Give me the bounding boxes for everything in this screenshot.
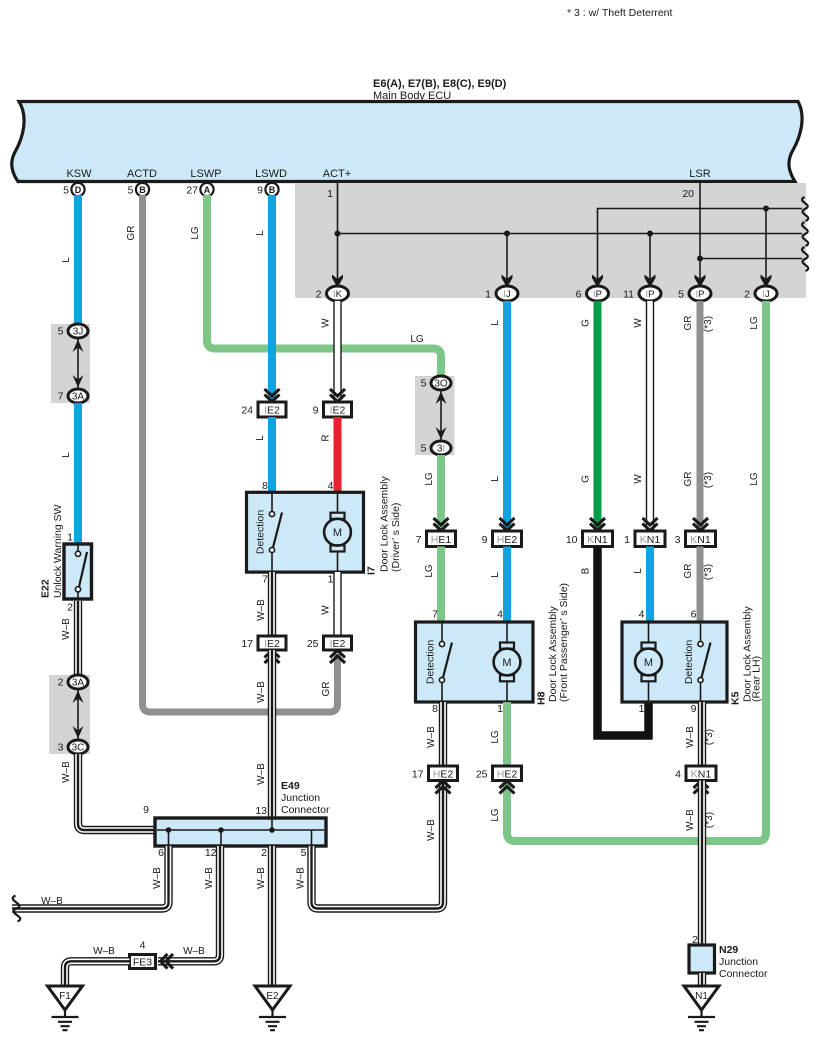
ground N1 [684,986,719,1010]
svg-text:E6(A), E7(B), E8(C), E9(D): E6(A), E7(B), E8(C), E9(D) [373,78,507,90]
wire W from IP11 [646,301,654,531]
connector 17 HE2 [429,766,458,781]
connector oval 11 IP [639,286,661,301]
svg-text:25: 25 [476,769,488,781]
svg-text:D: D [75,185,82,195]
svg-text:6: 6 [158,847,164,859]
arrow into IP11 [645,275,656,288]
chevron below 4 KN1 [694,781,709,794]
svg-text:(Rear LH): (Rear LH) [751,656,763,702]
svg-text:LG: LG [424,564,435,578]
wire W-B 17 IE2 to E49 pin13 [268,650,276,818]
junction connector E49 box [155,818,326,846]
svg-text:27: 27 [186,185,198,197]
svg-text:5: 5 [421,378,427,390]
svg-text:G: G [581,319,592,327]
svg-text:5: 5 [678,289,684,301]
svg-text:IE2: IE2 [330,405,346,417]
connector pair 3J/3A shade [51,324,90,403]
svg-text:9: 9 [691,703,697,715]
wire GR KN1 to K5 pin6 [697,547,704,623]
connector oval 1 IJ [496,286,518,301]
door lock assembly K5 box [622,622,727,702]
wire B from KN1 to K5 pin1 [598,547,649,736]
K5 switch [700,622,702,702]
wire L LSWD [268,195,276,400]
wire L KN1 to K5 pin4 [646,547,654,623]
connector oval 5 3J [68,324,88,338]
chevron into 1 KN1 [643,518,658,531]
wire W-B I7 pin7 to 17 IE2 [268,572,276,636]
svg-text:W–B: W–B [256,867,267,889]
bus wire y=258.5 [700,258,802,260]
double arrow between 3A and 3C [77,689,79,740]
wire L into I7 pin 8 [268,417,276,492]
svg-text:IE2: IE2 [330,638,346,650]
svg-text:6: 6 [691,609,697,621]
svg-text:(*3): (*3) [703,564,714,580]
svg-text:W–B: W–B [256,763,267,785]
svg-text:ACT+: ACT+ [323,168,351,180]
svg-text:W–B: W–B [256,681,267,703]
svg-text:B: B [581,567,592,574]
junction area shade [295,183,806,298]
svg-text:7: 7 [58,391,64,403]
svg-text:LG: LG [410,334,424,345]
unlock warning switch E22 box [64,544,92,599]
svg-text:12: 12 [205,847,217,859]
pin 27 circle A [200,183,213,196]
junction dot [504,231,510,237]
svg-text:R: R [321,434,332,441]
wire G from IP6 [594,301,602,531]
svg-text:W–B: W–B [93,946,115,957]
svg-text:KN1: KN1 [691,769,712,781]
svg-text:LG: LG [749,316,760,330]
svg-text:1: 1 [327,188,333,200]
svg-text:(Driver’ s Side): (Driver’ s Side) [390,503,402,572]
wire LSR vertical [699,183,701,279]
connector 24 IE2 [258,402,286,417]
H8 switch [441,622,443,702]
svg-text:M: M [644,657,653,669]
svg-text:H8: H8 [536,691,548,705]
svg-text:(*3): (*3) [704,729,715,745]
svg-text:W: W [633,318,644,328]
svg-text:9: 9 [257,185,263,197]
connector 9 IE2 [324,402,352,417]
wire GR from IP5 [697,301,704,531]
Main Body ECU box U1 [12,102,802,182]
svg-text:9: 9 [143,804,149,816]
svg-text:M: M [502,657,511,669]
junction dot [335,231,341,237]
svg-text:1: 1 [497,703,503,715]
svg-text:IE2: IE2 [264,638,280,650]
svg-text:W–B: W–B [183,946,205,957]
svg-text:2: 2 [67,602,73,614]
svg-text:7: 7 [432,609,438,621]
chevron into 9 IE2 [330,389,345,402]
svg-text:GR: GR [683,316,694,331]
svg-text:W–B: W–B [296,867,307,889]
wire LG H8 pin1 to 25 HE2 [503,702,511,766]
wire W-B E49 pin5 to 17 HE2 [312,781,444,909]
connector 7 HE1 [427,531,456,547]
svg-text:IE2: IE2 [264,405,280,417]
wire W-B E22 to 3A [74,601,82,676]
svg-text:W–B: W–B [685,809,696,831]
svg-text:K5: K5 [730,691,742,705]
junction dot [647,231,653,237]
wire W-B H8 pin8 to 17 HE2 [439,702,447,766]
wire W I7 pin1 to 25 IE2 [333,572,341,636]
svg-text:W–B: W–B [204,867,215,889]
svg-text:Detection: Detection [683,640,695,685]
svg-text:W: W [321,605,332,615]
pin 5 circle D [71,183,84,196]
svg-text:3J: 3J [73,327,84,338]
svg-text:2: 2 [744,289,750,301]
arrow into IP6 [592,275,603,288]
chevron below 17 IE2 [265,651,280,664]
connector oval 2 3A [68,675,88,689]
junction dot [763,206,769,212]
svg-text:M: M [333,527,342,539]
K5 motor M [648,622,650,702]
svg-text:KN1: KN1 [640,534,661,546]
svg-text:W–B: W–B [41,896,63,907]
wire W-B FE3 to F1 [65,961,130,986]
svg-text:GR: GR [321,682,332,697]
chevron below 17 HE2 [436,781,451,794]
svg-text:IP: IP [593,289,602,300]
svg-text:L: L [490,572,501,578]
svg-text:E49: E49 [281,780,300,792]
svg-text:I7: I7 [366,566,378,575]
chevron into 7 HE1 [434,518,449,531]
svg-text:2: 2 [261,847,267,859]
E22 switch [77,544,79,599]
svg-text:Unlock Warning SW: Unlock Warning SW [52,504,64,598]
svg-text:8: 8 [262,480,268,492]
svg-text:B: B [139,185,146,195]
svg-text:Connector: Connector [281,804,330,816]
svg-text:3I: 3I [437,444,445,455]
connector 3 KN1 [686,531,716,547]
double arrow between 3O and 3I [440,390,442,441]
svg-text:HE2: HE2 [497,769,518,781]
connector 10 KN1 [583,531,613,547]
svg-text:LG: LG [190,226,201,240]
svg-text:17: 17 [412,769,424,781]
svg-text:20: 20 [682,188,694,200]
wire LG LSWP [207,195,441,377]
bus wire y=233.5 [338,233,803,235]
svg-text:7: 7 [262,574,268,586]
svg-text:GR: GR [683,472,694,487]
break symbol left [13,896,21,922]
connector oval 2 IK [327,286,349,301]
connector oval 5 3O [431,376,451,390]
svg-text:A: A [204,185,211,195]
connector 4 KN1 [686,766,716,781]
chevron below 25 IE2 [330,651,345,664]
break symbol [802,222,808,246]
svg-text:IK: IK [333,289,343,300]
svg-text:W: W [321,318,332,328]
wire L from IJ1 [503,301,511,531]
ground F1 [48,986,83,1010]
wire W-B E49 pin2 to E2 [268,846,276,986]
svg-text:(Front Passenger’ s Side): (Front Passenger’ s Side) [558,583,570,702]
svg-text:3O: 3O [434,379,448,390]
bus wire y=208.5 with corner to IP6 [598,209,803,280]
svg-text:5: 5 [421,443,427,455]
svg-text:KSW: KSW [66,168,92,180]
wire drop to IJ1 [506,234,508,280]
svg-text:1: 1 [328,574,334,586]
svg-text:4: 4 [328,480,334,492]
svg-text:8: 8 [432,703,438,715]
svg-text:FE3: FE3 [133,957,152,969]
I7 motor M [337,492,339,572]
svg-text:7: 7 [416,534,422,546]
svg-text:13: 13 [255,805,267,817]
break symbol [802,247,808,271]
svg-text:LG: LG [749,472,760,486]
svg-text:25: 25 [307,638,319,650]
svg-text:W–B: W–B [61,618,72,640]
break symbol [802,197,808,221]
svg-text:IJ: IJ [503,289,511,300]
svg-text:4: 4 [497,609,503,621]
svg-text:6: 6 [576,289,582,301]
I7 switch [271,492,273,572]
svg-text:L: L [490,320,501,326]
svg-text:5: 5 [63,185,69,197]
connector 9 HE2 [493,531,522,547]
chevron into 9 HE2 [500,518,515,531]
arrow into IK [332,275,343,288]
door lock assembly H8 box [416,622,534,702]
svg-text:3: 3 [675,534,681,546]
wire drop to IJ2 [765,209,767,280]
svg-text:11: 11 [623,289,634,301]
svg-text:IJ: IJ [762,289,770,300]
svg-text:E22: E22 [40,579,52,598]
connector 1 KN1 [635,531,665,547]
arrow into IJ2 [761,275,772,288]
svg-text:1: 1 [624,534,630,546]
svg-text:2: 2 [692,934,698,946]
wire GR ACTD [143,195,338,712]
E49 junction dot [218,827,224,833]
svg-text:Connector: Connector [719,968,768,980]
wire L KSW lower [74,403,82,544]
svg-text:5: 5 [301,847,307,859]
svg-text:IP: IP [696,289,705,300]
connector 17 IE2 [258,636,286,650]
svg-text:LSWP: LSWP [190,168,221,180]
svg-text:L: L [255,230,266,236]
svg-text:GR: GR [683,564,694,579]
connector oval 5 IP [689,286,711,301]
svg-text:2: 2 [58,677,64,689]
wire LG from 3I to HE1 [437,455,445,531]
svg-text:LSR: LSR [689,168,710,180]
svg-text:4: 4 [140,940,146,952]
chevron into 3 KN1 [693,518,708,531]
svg-text:HE2: HE2 [433,769,454,781]
svg-text:W–B: W–B [61,761,72,783]
svg-text:N1: N1 [695,991,708,1002]
svg-text:W–B: W–B [426,726,437,748]
connector oval 5 3I [431,441,451,455]
svg-text:LSWD: LSWD [255,168,287,180]
connector pair 3A/3C shade [49,675,90,754]
svg-text:LG: LG [424,472,435,486]
svg-text:(*3): (*3) [704,812,715,828]
arrow into IP5 [695,275,706,288]
svg-text:24: 24 [241,405,253,417]
chevron into 10 KN1 [590,518,605,531]
wire LG from IJ2 loop to 25 HE2 [507,301,766,841]
pin 5 circle B [136,183,149,196]
svg-text:W–B: W–B [152,867,163,889]
wire W-B 4 KN1 to N29 [698,781,706,946]
svg-text:3A: 3A [72,678,85,689]
chevron into FE3 [161,954,174,969]
double arrow between 3J and 3A [77,338,79,389]
svg-text:HE2: HE2 [497,534,518,546]
svg-text:Junction: Junction [719,956,758,968]
svg-text:N29: N29 [719,944,738,956]
chevron into 24 IE2 [265,389,280,402]
svg-text:HE1: HE1 [431,534,452,546]
svg-text:3: 3 [58,742,64,754]
svg-text:5: 5 [128,185,134,197]
connector 25 HE2 [493,766,522,781]
svg-text:IP: IP [646,289,655,300]
svg-text:17: 17 [241,638,253,650]
connector oval 3 3C [68,740,88,754]
svg-text:* 3 : w/ Theft Deterrent: * 3 : w/ Theft Deterrent [567,7,673,19]
wire W-B E49 pin6 to break [12,846,169,909]
svg-text:Door Lock Assembly: Door Lock Assembly [379,476,391,572]
svg-text:L: L [633,568,644,574]
svg-text:9: 9 [482,534,488,546]
svg-text:B: B [269,185,276,195]
svg-text:(*3): (*3) [703,472,714,488]
connector oval 6 IP [587,286,609,301]
wire drop to IP11 [649,234,651,280]
connector oval 7 3A [68,389,88,403]
wire W from IK [333,301,341,400]
svg-text:W–B: W–B [685,726,696,748]
connector pair 3O/3I shade [415,376,455,455]
svg-text:1: 1 [485,289,491,301]
svg-text:4: 4 [639,609,645,621]
svg-text:3A: 3A [72,392,85,403]
svg-text:ACTD: ACTD [127,168,157,180]
svg-text:L: L [490,476,501,482]
svg-text:E2: E2 [266,991,279,1002]
svg-text:9: 9 [313,405,319,417]
wire ACT+ vertical [337,183,339,279]
svg-text:LG: LG [490,730,501,744]
wire L KSW upper [74,195,82,324]
svg-text:(*3): (*3) [703,316,714,332]
svg-text:Detection: Detection [425,640,437,685]
wire R into I7 pin 4 [334,417,342,492]
svg-text:Junction: Junction [281,792,320,804]
E49 junction dot [166,827,172,833]
svg-text:L: L [255,435,266,441]
svg-text:G: G [581,475,592,483]
svg-text:L: L [61,257,72,263]
svg-text:5: 5 [58,326,64,338]
svg-text:W–B: W–B [426,819,437,841]
door lock assembly I7 box [247,492,364,572]
svg-text:1: 1 [67,532,73,544]
E49 junction dot [269,827,275,833]
svg-text:LG: LG [490,808,501,822]
svg-text:10: 10 [566,534,578,546]
svg-text:L: L [61,452,72,458]
wire W-B N29 to N1 [698,973,706,986]
svg-text:1: 1 [639,703,645,715]
fusible link 4 FE3 [130,955,156,969]
svg-text:KN1: KN1 [690,534,711,546]
wire W-B E49 pin12 to FE3 [158,846,220,961]
wire W-B 3C to E49 pin9 [78,754,156,830]
wire L HE2 to H8 pin4 [503,547,511,623]
svg-text:Detection: Detection [255,510,267,555]
svg-text:F1: F1 [59,991,71,1002]
pin 9 circle B [265,183,278,196]
chevron below 25 HE2 [500,781,515,794]
junction dot [697,256,703,262]
H8 motor M [506,622,508,702]
svg-text:GR: GR [126,226,137,241]
ground E2 [255,986,290,1010]
svg-text:W: W [633,474,644,484]
svg-text:KN1: KN1 [587,534,608,546]
wire W-B K5 pin9 to 4 KN1 [698,702,706,766]
svg-text:2: 2 [316,289,322,301]
svg-text:W–B: W–B [256,599,267,621]
svg-text:3C: 3C [72,743,85,754]
connector 25 IE2 [324,636,352,650]
wire LG HE1 to H8 pin7 [437,547,445,623]
junction connector N29 box [689,945,715,973]
arrow into IJ1 [502,275,513,288]
E49 inner bus [157,829,324,831]
svg-text:4: 4 [675,769,681,781]
connector oval 2 IJ [755,286,777,301]
